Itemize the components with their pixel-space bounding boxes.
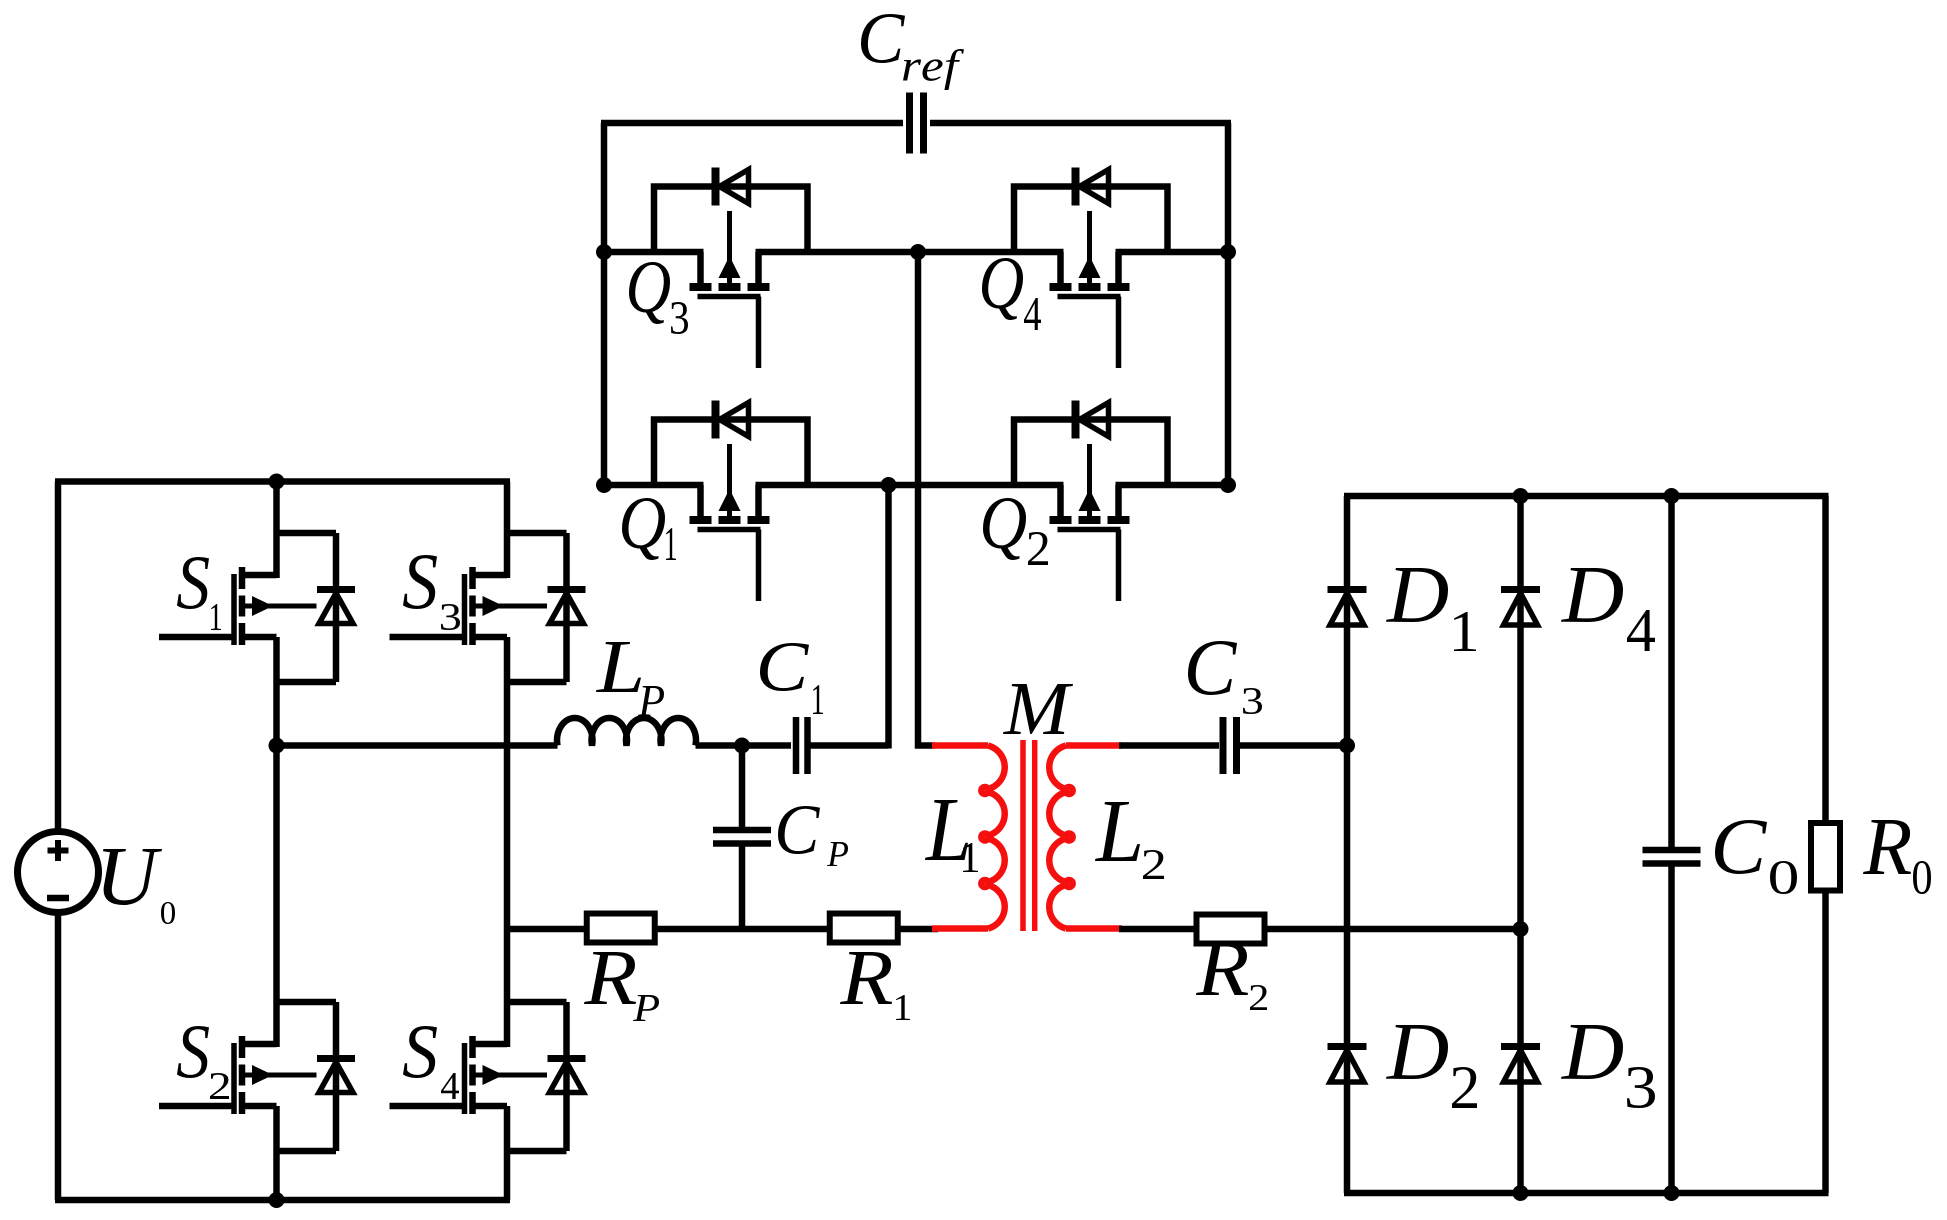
label L_P	[596, 642, 664, 716]
wire R2 to rectifier	[1265, 926, 1521, 933]
wire from Q1 bus node down to C1 output	[885, 485, 892, 749]
wire Q1 bus left	[604, 482, 704, 489]
diode D2	[1328, 1047, 1367, 1083]
node B: Q3/Q4 bus midpoint	[910, 244, 926, 260]
wire C0 leg upper	[1668, 496, 1675, 850]
wire midpoint to L_P	[277, 742, 558, 749]
winding L1 top lead	[932, 742, 988, 749]
wire Q3 bus left	[604, 249, 704, 256]
label C_P	[778, 806, 848, 866]
winding L1	[981, 746, 1004, 929]
wire top rail of rectifier	[1344, 493, 1829, 500]
wire right rail of Q bridge	[1225, 123, 1232, 488]
wire bottom rail of input bridge	[55, 1197, 510, 1204]
wire C_ref top right	[930, 120, 1231, 127]
transistor Q3	[690, 211, 770, 368]
wire S1 drain	[273, 482, 280, 579]
label S3	[403, 555, 460, 630]
capacitor C0	[1643, 850, 1701, 864]
node dot top rail / D4 leg	[1513, 488, 1529, 504]
resistor R1	[830, 914, 898, 943]
label C3	[1188, 641, 1262, 714]
wire R0 leg lower	[1822, 888, 1829, 1193]
node dot Q1 bus / C1 branch	[881, 477, 897, 493]
capacitor C1	[796, 717, 808, 774]
body diode of S3	[507, 533, 586, 682]
label S4	[403, 1026, 459, 1099]
label S2	[177, 1026, 229, 1099]
body diode of S4	[507, 1002, 586, 1151]
wire S1 source to midpoint node	[273, 637, 280, 746]
voltage source U0	[18, 482, 99, 1201]
body diode of S1	[277, 533, 356, 682]
winding L2 bottom lead	[1066, 925, 1122, 932]
node dot bottom rail / D3 leg	[1513, 1185, 1529, 1201]
wire Q4 bus right	[1116, 249, 1229, 256]
wire S4 source	[504, 1106, 511, 1200]
wire top rail of input bridge	[55, 478, 510, 485]
wire C_ref top left	[601, 120, 903, 127]
winding L2	[1049, 746, 1072, 929]
label U0	[103, 849, 175, 924]
wire D1-D2 leg	[1344, 496, 1351, 1193]
label R0	[1863, 820, 1931, 894]
body diode of S2	[277, 1002, 356, 1151]
label D4	[1561, 568, 1655, 651]
body diode of Q3	[654, 168, 808, 253]
resistor R2	[1197, 915, 1265, 944]
wire S3/S4 midpoint to R_P	[507, 926, 587, 933]
body diode of Q2	[1014, 401, 1168, 486]
wire C_P bottom lead	[739, 846, 746, 933]
node dot R2 / D4-D3 leg	[1513, 921, 1529, 937]
wire R0 leg upper	[1822, 496, 1829, 826]
label R_P	[584, 952, 659, 1021]
transistor S3	[390, 567, 548, 645]
wire S2 source	[273, 1106, 280, 1200]
label S1	[177, 557, 221, 630]
capacitor C_ref	[910, 93, 924, 154]
wire Q2 bus right	[1116, 482, 1229, 489]
node dot bottom rail / S2 source	[269, 1192, 285, 1208]
node dot right rail / Q4 bus	[1220, 244, 1236, 260]
label C1	[760, 643, 823, 714]
node dot C3 / D1-D2 leg	[1339, 738, 1355, 754]
transistor S2	[159, 1036, 317, 1114]
label L1	[925, 800, 978, 872]
wire C0 leg lower	[1668, 864, 1675, 1194]
wire D4-D3 leg	[1517, 496, 1524, 1193]
transistor S4	[390, 1036, 548, 1114]
winding L2 top lead	[1066, 742, 1122, 749]
wire Q1-Q2 bus middle	[756, 482, 1064, 489]
body diode of Q1	[654, 401, 808, 486]
winding L1 bottom lead	[932, 925, 988, 932]
body diode of Q4	[1014, 168, 1168, 253]
wire bottom rail of rectifier	[1344, 1190, 1829, 1197]
node dot top rail / C0 leg	[1664, 488, 1680, 504]
wire S3 drain	[504, 482, 511, 579]
label Q4	[982, 258, 1041, 330]
label R1	[840, 952, 910, 1020]
transistor S1	[159, 567, 317, 645]
label D3	[1561, 1025, 1655, 1108]
node dot C_P branch	[734, 738, 750, 754]
label Q2	[983, 498, 1048, 565]
wire R_P to R1	[655, 926, 831, 933]
label D2	[1386, 1025, 1477, 1108]
wire Q3-Q4 bus middle	[756, 249, 1064, 256]
diode D4	[1501, 590, 1540, 626]
wire C_P top lead	[739, 746, 746, 829]
label C_ref	[861, 14, 964, 90]
wire L_P to C1	[696, 742, 792, 749]
diode D1	[1328, 590, 1367, 626]
transformer core	[1023, 740, 1035, 931]
wire S2 drain	[273, 746, 280, 1048]
transistor Q1	[690, 444, 770, 601]
wire C1 to Q1-bus branch	[811, 742, 889, 749]
wire left rail of Q bridge	[601, 123, 608, 488]
wire S3 source / right-leg rail	[504, 637, 511, 1047]
transistor Q2	[1050, 444, 1130, 601]
node dot right rail / Q2 bus	[1220, 477, 1236, 493]
wire L2 to R2	[1119, 926, 1196, 933]
label Q3	[629, 262, 688, 334]
label L2	[1095, 802, 1164, 879]
wire from Q3/Q4 midpoint down to transformer	[918, 252, 935, 746]
wire C3 to rectifier	[1240, 742, 1348, 749]
wire R1 to transformer	[898, 926, 939, 933]
node A: left-leg midpoint	[269, 738, 285, 754]
wire L2 to C3	[1119, 742, 1219, 749]
node dot left rail / Q1 bus	[596, 477, 612, 493]
label C0	[1715, 820, 1797, 894]
node dot left rail / Q3 bus	[596, 244, 612, 260]
label R2	[1196, 943, 1267, 1010]
label Q1	[622, 498, 676, 560]
label D1	[1386, 568, 1476, 651]
inductor L_P	[557, 718, 696, 746]
resistor R0	[1811, 823, 1840, 891]
capacitor C3	[1223, 717, 1237, 774]
label M	[1003, 684, 1073, 734]
node dot bottom rail / C0 leg	[1664, 1185, 1680, 1201]
capacitor C_P	[713, 830, 771, 844]
node dot top rail / S1 drain	[269, 474, 285, 490]
transistor Q4	[1050, 211, 1130, 368]
diode D3	[1501, 1047, 1540, 1083]
resistor R_P	[587, 914, 655, 943]
